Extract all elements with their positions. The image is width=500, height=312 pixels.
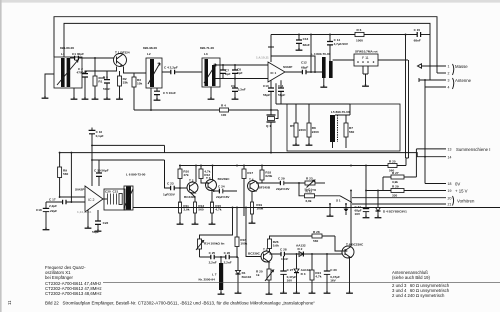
svg-text:L 6 890-73-00: L 6 890-73-00 [126, 172, 146, 176]
svg-text:IC 1: IC 1 [271, 71, 277, 75]
svg-text:C13: C13 [303, 37, 309, 41]
svg-text:10nF: 10nF [281, 257, 288, 261]
svg-text:R 29: R 29 [392, 184, 399, 188]
svg-text:T 5: T 5 [263, 247, 268, 251]
svg-text:16V: 16V [330, 279, 336, 283]
capacitor C11 [278, 84, 285, 104]
ground [154, 98, 161, 100]
svg-text:C 15: C 15 [414, 28, 421, 32]
transistor T6 [342, 242, 364, 258]
ground [95, 229, 102, 231]
diode D3 [294, 253, 311, 291]
svg-text:68nF: 68nF [414, 39, 421, 43]
svg-text:T 3: T 3 [206, 176, 211, 180]
svg-text:68nF: 68nF [303, 43, 310, 47]
wire T6 collector [350, 191, 352, 247]
wire IF out top [216, 64, 259, 66]
resistor R22 [299, 183, 315, 203]
svg-text:4: 4 [448, 86, 450, 90]
resistor R18 [256, 166, 273, 184]
resistor R8 [307, 104, 319, 143]
svg-text:BC239C: BC239C [248, 251, 261, 255]
svg-text:4,7µF/10V: 4,7µF/10V [334, 42, 349, 46]
capacitor C3 [103, 71, 110, 97]
diode D2 [296, 243, 306, 256]
ground [293, 143, 300, 145]
connector 3 Antenne [419, 78, 472, 83]
potentiometer R20 [256, 262, 274, 292]
capacitor C18 [36, 202, 57, 228]
svg-text:R17: R17 [247, 171, 253, 175]
svg-text:C 19 56pF: C 19 56pF [94, 169, 109, 173]
potentiometer R14 [196, 239, 224, 257]
svg-text:2,2µF: 2,2µF [49, 204, 57, 208]
ground [116, 97, 123, 99]
ground [218, 292, 225, 294]
text antenna table [392, 270, 450, 298]
resistor R15 [211, 191, 222, 222]
svg-text:0V: 0V [455, 182, 460, 187]
capacitor C24 [213, 185, 237, 199]
diode D1 [236, 270, 252, 291]
svg-text:4,7k: 4,7k [215, 208, 221, 212]
connector 2 [437, 64, 454, 76]
filter box IC2 out [103, 189, 125, 210]
transistor T1 [114, 50, 130, 66]
wire T3 collector [212, 166, 214, 181]
wire IC1 inputs [258, 65, 268, 79]
svg-text:100: 100 [221, 113, 226, 117]
bus vertical 0V [424, 87, 426, 184]
inductor L7 [199, 257, 224, 292]
capacitor C22 [92, 210, 109, 234]
svg-text:S 1: S 1 [336, 199, 341, 203]
svg-text:D 4 BZY85/C9V1: D 4 BZY85/C9V1 [383, 210, 407, 214]
filter F11 [333, 50, 408, 84]
svg-text:2,2nF: 2,2nF [209, 260, 217, 264]
svg-text:bei Empfänger: bei Empfänger [45, 275, 74, 280]
wire lines into IF section [92, 145, 165, 152]
svg-text:22µF/16V: 22µF/16V [216, 195, 230, 199]
ground [43, 228, 50, 230]
ground [346, 291, 353, 293]
resistor R16 [235, 237, 248, 257]
capacitor C27 [280, 256, 296, 291]
wire IC1 top pin [268, 35, 274, 63]
svg-text:3,9k: 3,9k [183, 208, 189, 212]
svg-text:2 und 4 240 Ω symmetrisch: 2 und 4 240 Ω symmetrisch [392, 293, 445, 298]
svg-text:BF245B: BF245B [259, 185, 271, 189]
wire L4 feed [310, 35, 312, 73]
ground [296, 48, 303, 50]
transformer L2 [143, 46, 162, 88]
svg-text:3,3nF: 3,3nF [238, 87, 246, 91]
svg-text:Nr. 2500-94: Nr. 2500-94 [199, 277, 216, 281]
wire T6 emitter [342, 252, 350, 291]
svg-text:T 1 BF324: T 1 BF324 [115, 50, 130, 54]
connector 19 +15V [448, 189, 468, 194]
wire L4 top [323, 78, 325, 85]
svg-text:1000: 1000 [356, 38, 363, 42]
svg-text:C11: C11 [278, 84, 284, 88]
capacitor C28 [270, 248, 343, 261]
svg-text:T 2: T 2 [189, 178, 194, 182]
diode D4 [376, 190, 408, 216]
svg-text:D 3: D 3 [301, 272, 306, 276]
ground [208, 97, 215, 99]
capacitor C26 [224, 251, 232, 264]
svg-text:560: 560 [313, 239, 318, 243]
transistor T2 [184, 178, 198, 198]
svg-text:3: 3 [448, 79, 450, 83]
op-amp IC2 [75, 186, 103, 214]
svg-text:C 5 10nF: C 5 10nF [163, 91, 176, 95]
svg-text:16V: 16V [355, 212, 361, 216]
ground [375, 216, 382, 218]
svg-text:22µF/10V: 22µF/10V [276, 187, 290, 191]
supply rail mid [179, 165, 388, 167]
svg-text:560: 560 [198, 208, 203, 212]
svg-text:+ 15 V: + 15 V [455, 189, 468, 194]
op-amp IC1 [256, 55, 292, 82]
capacitor C17 [46, 197, 85, 207]
resistor R27 [383, 171, 416, 191]
svg-text:C 25: C 25 [209, 251, 216, 255]
svg-text:S042P: S042P [283, 65, 292, 69]
capacitor C29 [256, 177, 305, 191]
transistor T3 [206, 176, 231, 191]
capacitor C10 [263, 84, 274, 110]
ground [209, 222, 216, 224]
svg-text:R 27: R 27 [392, 171, 399, 175]
svg-text:1,14,10,11: 1,14,10,11 [77, 210, 92, 214]
capacitor C15 [414, 28, 430, 43]
wire AGC bus [134, 110, 278, 119]
resistor R13 [191, 193, 205, 222]
diode D5 [344, 203, 349, 215]
svg-text:16V: 16V [287, 279, 293, 283]
ground [249, 221, 256, 223]
shield box L5 assembly [287, 104, 400, 151]
wire L2 bottom [150, 88, 152, 110]
wire T1 collector [124, 67, 147, 74]
ground [82, 97, 89, 99]
wire emitter row [85, 71, 117, 80]
resistor R3 [132, 73, 142, 110]
wire from audio line down [70, 153, 72, 202]
resistor R26 [312, 230, 347, 251]
svg-text:890-71-00: 890-71-00 [200, 46, 214, 50]
ground [320, 85, 327, 87]
capacitor C8 [232, 64, 243, 79]
svg-text:Vorhören: Vorhören [457, 198, 475, 203]
switch S1 [314, 196, 352, 203]
transistor T4 [248, 177, 271, 191]
resistor R17 [242, 166, 253, 217]
svg-text:C1 30pF: C1 30pF [72, 52, 84, 56]
svg-text:11: 11 [7, 300, 12, 305]
connector 13 Summenschiene [416, 147, 490, 152]
capacitor C30 [324, 253, 340, 291]
svg-text:C 24: C 24 [218, 185, 225, 189]
svg-text:8pF: 8pF [237, 71, 243, 75]
svg-text:890-80-00: 890-80-00 [60, 46, 74, 50]
svg-text:T 4: T 4 [249, 177, 254, 181]
svg-text:C 17: C 17 [49, 197, 56, 201]
ground [177, 222, 184, 224]
wire into box [276, 104, 350, 115]
connector 20 [352, 196, 451, 200]
svg-text:330: 330 [392, 194, 397, 198]
ground [280, 291, 287, 293]
svg-text:R1: R1 [98, 80, 102, 84]
connector 4 [425, 78, 454, 90]
wire L1 bottom [73, 88, 75, 97]
svg-text:L 4 890-70-00: L 4 890-70-00 [311, 52, 331, 56]
resistor R9 [58, 153, 69, 197]
wire antenna input left [45, 74, 54, 96]
svg-text:5,6k: 5,6k [273, 244, 279, 248]
wire IF out bottom [216, 78, 259, 80]
svg-text:L2: L2 [147, 52, 151, 56]
svg-text:56pF: 56pF [263, 93, 270, 97]
capacitor C12 [285, 61, 322, 75]
wire audio line to 14 [60, 153, 425, 157]
wire outer top frame (Masse loop) [54, 17, 437, 73]
node audio line Q1 [270, 152, 272, 154]
svg-text:560: 560 [63, 172, 68, 176]
svg-text:SFW10,7MA rot: SFW10,7MA rot [355, 50, 378, 54]
svg-text:C 4 2,2pF: C 4 2,2pF [164, 66, 178, 70]
svg-text:2: 2 [448, 72, 450, 76]
resistor R7 [335, 115, 354, 148]
svg-text:C 29: C 29 [278, 177, 285, 181]
ground [71, 97, 78, 99]
svg-text:20: 20 [448, 196, 452, 200]
svg-text:19: 19 [448, 189, 452, 193]
transformer L6 [124, 172, 146, 210]
ground [309, 291, 316, 293]
pointer line frequency [103, 281, 500, 283]
capacitor C31 [355, 165, 370, 217]
capacitor C5 [154, 88, 176, 98]
text frequency table [45, 265, 102, 296]
ground [192, 222, 199, 224]
svg-text:L5 890-70-00: L5 890-70-00 [331, 110, 350, 114]
ground [293, 291, 300, 293]
connector 21 [352, 196, 475, 207]
svg-text:R 28: R 28 [313, 230, 320, 234]
svg-text:C22: C22 [103, 221, 109, 225]
resistor R29 [366, 184, 446, 197]
svg-text:2,2nF: 2,2nF [224, 260, 232, 264]
resistor R6 [355, 28, 364, 42]
svg-text:BC239C: BC239C [218, 177, 231, 181]
svg-text:L3: L3 [204, 52, 208, 56]
bus vertical 13 to R27 [415, 149, 417, 177]
ground [324, 291, 331, 293]
long audio line [133, 207, 500, 209]
svg-text:R 6: R 6 [357, 28, 362, 32]
svg-text:Q 1: Q 1 [266, 124, 271, 128]
ground [235, 291, 242, 293]
connector 18 0V [425, 182, 460, 187]
potentiometer R23 [305, 177, 326, 192]
ground [306, 143, 313, 145]
resistor R4 [220, 104, 229, 117]
capacitor C13 [296, 35, 310, 49]
resistor R1 [93, 58, 106, 97]
svg-text:C12: C12 [301, 61, 307, 65]
svg-text:CT2302-A700-B613 48,6MHz: CT2302-A700-B613 48,6MHz [45, 291, 102, 296]
wire T2 collector [195, 166, 197, 183]
ground [362, 84, 369, 86]
resistor R2 [118, 71, 129, 97]
svg-text:BA102: BA102 [242, 275, 252, 279]
wire IC2 bottom pin [87, 210, 89, 226]
svg-text:T 6 BC239C: T 6 BC239C [346, 242, 364, 246]
svg-text:R 23: R 23 [306, 177, 313, 181]
wire inner top frame (Antenne loop) [64, 23, 430, 80]
bus vertical F11 out [408, 60, 410, 158]
resistor R12 [199, 166, 211, 184]
bus vertical rail down [406, 35, 409, 159]
ground under S1 [329, 204, 331, 214]
ground [104, 97, 111, 99]
svg-text:L 7: L 7 [212, 272, 217, 276]
resistor R10 [178, 166, 189, 189]
svg-text:2200: 2200 [312, 130, 319, 134]
ground [232, 97, 239, 99]
svg-text:C 26: C 26 [224, 251, 231, 255]
wire L3 ground [210, 87, 212, 97]
svg-text:S042P: S042P [75, 188, 84, 192]
svg-text:C18: C18 [36, 208, 42, 212]
svg-text:2200: 2200 [299, 128, 306, 132]
svg-text:8pF: 8pF [225, 72, 231, 76]
wire osc row [200, 257, 239, 270]
svg-text:C 27: C 27 [287, 268, 294, 272]
svg-text:4,7k: 4,7k [315, 275, 321, 279]
capacitor C23 [163, 160, 187, 196]
svg-text:L1: L1 [61, 52, 65, 56]
svg-text:50nF: 50nF [103, 87, 110, 91]
svg-text:R 4: R 4 [221, 104, 226, 108]
node base [94, 57, 96, 59]
svg-text:890-98-00: 890-98-00 [143, 46, 157, 50]
svg-text:1µF/35V: 1µF/35V [163, 192, 176, 196]
capacitor C19 [94, 160, 109, 186]
svg-text:C9: C9 [231, 84, 235, 88]
resistor R5 [290, 104, 306, 143]
svg-text:56pF: 56pF [278, 93, 285, 97]
svg-text:R 22: R 22 [306, 190, 313, 194]
transformer L3 [200, 46, 220, 87]
svg-text:560: 560 [349, 130, 354, 134]
svg-text:68pF: 68pF [301, 66, 308, 70]
svg-text:18: 18 [448, 182, 452, 186]
svg-text:21: 21 [448, 203, 452, 207]
svg-text:Antenne: Antenne [455, 78, 472, 83]
svg-text:C 30: C 30 [330, 268, 337, 272]
supply rail top [271, 34, 417, 36]
resistor R19 [251, 192, 264, 221]
wire IC1 feedback [271, 56, 315, 72]
ground [92, 97, 99, 99]
wire T5 feed [246, 208, 261, 257]
capacitor C7 [220, 64, 231, 78]
wire IC1 bottom pins [271, 80, 281, 104]
svg-text:22µF: 22µF [50, 209, 57, 213]
svg-text:Masse: Masse [455, 64, 468, 69]
ground [85, 226, 92, 228]
svg-text:100k: 100k [240, 242, 247, 246]
svg-text:C21: C21 [113, 189, 119, 193]
svg-text:Summenschiene I: Summenschiene I [456, 147, 490, 152]
svg-text:F 11: F 11 [362, 56, 369, 60]
resistor R24 [310, 253, 322, 291]
capacitor C14 [327, 35, 349, 62]
svg-text:IC 2: IC 2 [88, 198, 94, 202]
capacitor C25 [209, 251, 217, 264]
wire IC2 input 1 [60, 196, 85, 198]
svg-text:R 25: R 25 [389, 159, 396, 163]
svg-text:1k: 1k [256, 273, 260, 277]
svg-text:C10: C10 [263, 84, 269, 88]
wire T5 collector to R26 [270, 236, 313, 252]
wire osc feed [200, 208, 238, 240]
svg-text:R14 100kΩ lin: R14 100kΩ lin [204, 241, 224, 245]
capacitor C1 [70, 52, 114, 60]
svg-text:47k: 47k [183, 173, 188, 177]
svg-text:1,4,10,11: 1,4,10,11 [256, 55, 269, 59]
capacitor C4 [162, 66, 202, 75]
svg-text:D 2: D 2 [298, 247, 303, 251]
svg-text:C 23: C 23 [167, 182, 174, 186]
transformer L4 [311, 52, 333, 78]
connector 1 Masse [418, 64, 469, 69]
ground [42, 96, 49, 98]
transformer L1 [54, 46, 82, 88]
capacitor C9 [231, 79, 246, 98]
svg-text:6,8k: 6,8k [306, 199, 312, 203]
svg-text:14: 14 [448, 155, 452, 159]
capacitor C16 [89, 128, 104, 187]
svg-text:Bild 22 Stromlaufplan Empfän: Bild 22 Stromlaufplan Empfänger, Bestell… [45, 301, 315, 306]
quartz Q1 [266, 110, 276, 152]
connector 14 [425, 155, 451, 159]
ground [363, 216, 370, 218]
svg-text:C20: C20 [105, 189, 111, 193]
svg-text:C 28: C 28 [280, 248, 287, 252]
transistor T5 [248, 247, 272, 262]
resistor R11 [179, 188, 190, 222]
svg-text:10k: 10k [137, 82, 142, 86]
resistor R21a [268, 239, 280, 249]
wire IC2 top line [92, 160, 165, 188]
capacitor C2 [77, 67, 117, 98]
svg-text:(siehe auch Bild 19): (siehe auch Bild 19) [392, 275, 431, 280]
svg-text:33k: 33k [123, 81, 128, 85]
svg-text:13: 13 [448, 148, 452, 152]
transformer L5 [330, 110, 350, 148]
ground [266, 292, 273, 294]
svg-text:620k: 620k [265, 174, 272, 178]
svg-text:0,1µF: 0,1µF [96, 134, 104, 138]
svg-text:1: 1 [448, 65, 450, 69]
resistor R25 [366, 158, 406, 173]
